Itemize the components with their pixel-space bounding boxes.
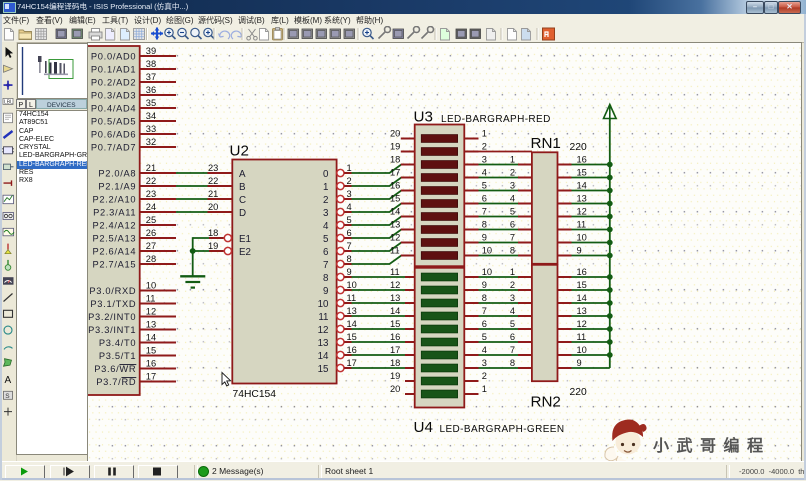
RN1 right pin 16 stub bbox=[558, 155, 587, 165]
svg-text:12: 12 bbox=[318, 325, 329, 336]
svg-text:220: 220 bbox=[570, 142, 587, 153]
wire RN2 pin 12 to VCC rail bbox=[572, 328, 610, 330]
RN2 right pin 15 stub bbox=[558, 280, 587, 290]
svg-text:P2.3/A11: P2.3/A11 bbox=[93, 208, 136, 218]
svg-text:13: 13 bbox=[577, 306, 587, 316]
svg-text:15: 15 bbox=[390, 194, 400, 204]
svg-text:1: 1 bbox=[510, 155, 515, 165]
RN2 right pin 11 stub bbox=[558, 332, 587, 342]
U4 right pin 2 stub bbox=[464, 371, 487, 381]
U1 pin 26 P2.5/A13 stub bbox=[92, 228, 176, 244]
junction node on VCC rail y=164 bbox=[607, 162, 613, 168]
RN1 right pin 12 stub bbox=[558, 207, 587, 217]
svg-text:8: 8 bbox=[510, 246, 515, 256]
U3 red LED bar segment 3 bbox=[421, 161, 457, 169]
RN2 right pin 16 stub bbox=[558, 267, 587, 277]
svg-text:36: 36 bbox=[146, 85, 156, 95]
LED bargraph U4 body bbox=[415, 268, 465, 408]
U3 left pin 15 stub bbox=[390, 194, 415, 204]
wire P2.3 to U2 input bbox=[176, 211, 208, 213]
wire U4 pin 9 to RN2 pin 2 bbox=[479, 289, 519, 291]
svg-text:11: 11 bbox=[146, 293, 156, 303]
RN1 right pin 10 stub bbox=[558, 233, 587, 243]
U4 green LED bar segment 7 bbox=[421, 351, 457, 359]
svg-text:5: 5 bbox=[347, 215, 352, 225]
svg-text:B: B bbox=[239, 182, 246, 193]
U4 green LED bar segment 4 bbox=[421, 312, 457, 320]
U1 pin 16 P3.6/WR stub bbox=[94, 358, 176, 374]
svg-text:1: 1 bbox=[482, 129, 487, 139]
U2 output 11 pin 13 stub with bubble bbox=[318, 306, 357, 323]
svg-text:15: 15 bbox=[146, 345, 156, 355]
RN1 left pin 7 stub bbox=[510, 233, 532, 243]
U3 red LED bar segment 1 bbox=[421, 135, 457, 143]
svg-text:4: 4 bbox=[510, 194, 515, 204]
RN2 right pin 12 stub bbox=[558, 319, 587, 329]
svg-text:15: 15 bbox=[577, 168, 587, 178]
wire U2 output 5 to U3 pin 13 bbox=[352, 230, 402, 239]
svg-text:8: 8 bbox=[482, 293, 487, 303]
RN2 right pin 13 stub bbox=[558, 306, 587, 316]
resistor network RN1 body bbox=[532, 152, 558, 263]
svg-text:E2: E2 bbox=[239, 247, 251, 258]
svg-text:6: 6 bbox=[323, 247, 329, 258]
U2 value label 74HC154 bbox=[233, 389, 277, 400]
svg-text:4: 4 bbox=[323, 221, 329, 232]
U1 pin 27 P2.6/A14 stub bbox=[92, 241, 176, 257]
svg-text:37: 37 bbox=[146, 72, 156, 82]
svg-text:14: 14 bbox=[390, 306, 400, 316]
wire U2 output 6 to U3 pin 12 bbox=[352, 243, 402, 252]
svg-text:C: C bbox=[239, 195, 246, 206]
svg-text:小武哥编程: 小武哥编程 bbox=[653, 436, 771, 455]
svg-text:3: 3 bbox=[482, 358, 487, 368]
wire RN2 pin 11 to VCC rail bbox=[572, 341, 610, 343]
U1 pin 35 P0.4/AD4 stub bbox=[91, 98, 176, 114]
U1 pin 22 P2.1/A9 stub bbox=[98, 176, 176, 192]
resistor network RN2 body bbox=[532, 265, 558, 381]
RN2 left pin 6 stub bbox=[510, 332, 532, 342]
U1 pin 28 P2.7/A15 stub bbox=[92, 254, 176, 270]
U1 pin 39 P0.0/AD0 stub bbox=[91, 46, 176, 62]
svg-text:33: 33 bbox=[146, 124, 156, 134]
svg-text:2: 2 bbox=[510, 168, 515, 178]
wire U4 pin 6 to RN2 pin 5 bbox=[479, 328, 519, 330]
svg-text:16: 16 bbox=[577, 267, 587, 277]
svg-text:LED-BARGRAPH-GREEN: LED-BARGRAPH-GREEN bbox=[440, 424, 565, 435]
U3 red LED bar segment 8 bbox=[421, 226, 457, 234]
U4 right pin 10 stub bbox=[464, 267, 492, 277]
RN2 right pin 9 stub bbox=[558, 358, 582, 368]
U1 pin 25 P2.4/A12 stub bbox=[92, 215, 176, 231]
svg-text:P3.7/RD: P3.7/RD bbox=[96, 377, 136, 387]
svg-text:28: 28 bbox=[146, 254, 156, 264]
svg-text:12: 12 bbox=[390, 280, 400, 290]
svg-text:16: 16 bbox=[390, 181, 400, 191]
P/L buttons + DEVICES header bbox=[16, 99, 87, 109]
U3 value label LED-BARGRAPH-RED bbox=[441, 114, 551, 125]
svg-text:13: 13 bbox=[390, 293, 400, 303]
svg-text:12: 12 bbox=[577, 207, 587, 217]
svg-text:18: 18 bbox=[390, 358, 400, 368]
wire U3 pin 8 to RN1 pin 6 bbox=[479, 229, 519, 231]
svg-text:15: 15 bbox=[347, 332, 357, 342]
RN1 left pin 1 stub bbox=[510, 155, 532, 165]
svg-text:P2.1/A9: P2.1/A9 bbox=[98, 182, 136, 192]
U2 output 15 pin 17 stub with bubble bbox=[318, 358, 357, 375]
svg-text:5: 5 bbox=[510, 207, 515, 217]
U3 right pin 2 stub bbox=[464, 142, 487, 152]
RN1 right pin 14 stub bbox=[558, 181, 587, 191]
U4 green LED bar segment 5 bbox=[421, 325, 457, 333]
U3 red LED bar segment 4 bbox=[421, 174, 457, 182]
U3 right pin 10 stub bbox=[464, 246, 492, 256]
wire RN2 pin 13 to VCC rail bbox=[572, 315, 610, 317]
wire U2 output 11 to U4 pin 14 bbox=[352, 315, 406, 317]
wire U3 pin 7 to RN1 pin 5 bbox=[479, 216, 519, 218]
watermark cartoon logo bbox=[605, 420, 647, 467]
svg-text:20: 20 bbox=[390, 384, 400, 394]
svg-text:A: A bbox=[5, 375, 12, 386]
U3 right pin 6 stub bbox=[464, 194, 487, 204]
LED bargraph U3 body bbox=[415, 125, 465, 267]
RN1 reference label bbox=[531, 135, 561, 152]
svg-text:P3.3/INT1: P3.3/INT1 bbox=[88, 325, 136, 335]
U2 enable input E2 pin 19 stub with bubble bbox=[208, 241, 251, 258]
U3 red LED bar segment 7 bbox=[421, 213, 457, 221]
svg-text:1: 1 bbox=[323, 182, 328, 193]
svg-text:2: 2 bbox=[482, 371, 487, 381]
svg-text:27: 27 bbox=[146, 241, 156, 251]
U2 enable input E1 pin 18 stub with bubble bbox=[208, 228, 251, 245]
U1 pin 37 P0.2/AD2 stub bbox=[91, 72, 176, 88]
RN1 left pin 8 stub bbox=[510, 246, 532, 256]
RN1 value label 220 bbox=[570, 142, 587, 153]
svg-text:39: 39 bbox=[146, 46, 156, 56]
U4 green LED bar segment 10 bbox=[421, 390, 457, 398]
svg-text:19: 19 bbox=[208, 241, 218, 251]
svg-text:14: 14 bbox=[146, 332, 156, 342]
U1 pin 13 P3.3/INT1 stub bbox=[88, 319, 176, 335]
junction node on VCC rail y=354 bbox=[607, 352, 613, 358]
wire U2 output 10 to U4 pin 13 bbox=[352, 302, 406, 304]
svg-text:U4: U4 bbox=[414, 419, 433, 436]
svg-text:17: 17 bbox=[390, 345, 400, 355]
U4 green LED bar segment 8 bbox=[421, 364, 457, 372]
junction node on VCC rail y=302 bbox=[607, 300, 613, 306]
U1 pin 15 P3.5/T1 stub bbox=[99, 345, 176, 361]
svg-text:9: 9 bbox=[482, 233, 487, 243]
svg-text:U3: U3 bbox=[414, 109, 433, 126]
svg-text:18: 18 bbox=[390, 155, 400, 165]
U1 pin 11 P3.1/TXD stub bbox=[90, 293, 176, 309]
RN1 right pin 15 stub bbox=[558, 168, 587, 178]
junction node on VCC rail y=289 bbox=[607, 287, 613, 293]
RN2 reference label bbox=[531, 394, 561, 411]
RN2 left pin 8 stub bbox=[510, 358, 532, 368]
RN1 right pin 9 stub bbox=[558, 246, 582, 256]
U2 input B pin 22 stub bbox=[208, 176, 247, 193]
svg-text:DEVICES: DEVICES bbox=[47, 102, 76, 109]
U3 right pin 8 stub bbox=[464, 220, 487, 230]
svg-text:21: 21 bbox=[146, 163, 156, 173]
svg-text:19: 19 bbox=[390, 142, 400, 152]
svg-text:14: 14 bbox=[577, 181, 587, 191]
wire U4 pin 8 to RN2 pin 3 bbox=[479, 302, 519, 304]
svg-text:P2.5/A13: P2.5/A13 bbox=[92, 234, 136, 244]
U2 input D pin 20 stub bbox=[208, 202, 247, 219]
U4 green LED bar segment 1 bbox=[421, 273, 457, 281]
U3 left pin 13 stub bbox=[390, 220, 415, 230]
svg-text:34: 34 bbox=[146, 111, 156, 121]
svg-text:10: 10 bbox=[482, 246, 492, 256]
wire U2 output 9 to U4 pin 12 bbox=[352, 289, 406, 291]
U2 output 8 pin 9 stub with bubble bbox=[323, 267, 352, 284]
svg-text:2: 2 bbox=[482, 142, 487, 152]
U2 output 6 pin 7 stub with bubble bbox=[323, 241, 352, 258]
U3 left pin 12 stub bbox=[390, 233, 415, 243]
U3 left pin 17 stub bbox=[390, 168, 415, 178]
U3 right pin 9 stub bbox=[464, 233, 487, 243]
U4 right pin 3 stub bbox=[464, 358, 487, 368]
svg-text:13: 13 bbox=[390, 220, 400, 230]
RN1 left pin 3 stub bbox=[510, 181, 532, 191]
U4 right pin 9 stub bbox=[464, 280, 487, 290]
svg-text:1: 1 bbox=[510, 267, 515, 277]
junction node on VCC rail y=202 bbox=[607, 201, 613, 207]
U4 green LED bar segment 2 bbox=[421, 286, 457, 294]
RN1 left pin 5 stub bbox=[510, 207, 532, 217]
title bar bbox=[0, 0, 806, 14]
svg-text:10: 10 bbox=[577, 233, 587, 243]
svg-text:20: 20 bbox=[390, 129, 400, 139]
U1 pin 38 P0.1/AD1 stub bbox=[91, 59, 176, 75]
svg-text:25: 25 bbox=[146, 215, 156, 225]
svg-text:10: 10 bbox=[577, 345, 587, 355]
RN2 left pin 2 stub bbox=[510, 280, 532, 290]
wire RN1 pin 16 to VCC rail bbox=[572, 164, 610, 166]
wire U4 pin 7 to RN2 pin 4 bbox=[479, 315, 519, 317]
U4 left pin 18 stub bbox=[390, 358, 415, 368]
junction node on VCC rail y=254 bbox=[607, 253, 613, 259]
wire RN2 pin 15 to VCC rail bbox=[572, 289, 610, 291]
svg-text:4: 4 bbox=[482, 345, 487, 355]
U4 right pin 8 stub bbox=[464, 293, 487, 303]
svg-text:2: 2 bbox=[510, 280, 515, 290]
microcontroller U1 AT89C51 body (clipped at left) bbox=[71, 46, 140, 395]
svg-text:20: 20 bbox=[208, 202, 218, 212]
junction node on VCC rail y=328 bbox=[607, 326, 613, 332]
U1 pin 21 P2.0/A8 stub bbox=[98, 163, 176, 179]
svg-text:10: 10 bbox=[318, 299, 329, 310]
svg-text:0: 0 bbox=[323, 169, 329, 180]
svg-text:12: 12 bbox=[577, 319, 587, 329]
svg-text:P2.4/A12: P2.4/A12 bbox=[92, 221, 136, 231]
wire RN1 pin 13 to VCC rail bbox=[572, 203, 610, 205]
svg-text:6: 6 bbox=[347, 228, 352, 238]
overview preview bbox=[17, 43, 88, 99]
svg-text:5: 5 bbox=[510, 319, 515, 329]
U2 output 10 pin 11 stub with bubble bbox=[318, 293, 357, 310]
watermark text bbox=[653, 436, 771, 455]
U2 output 14 pin 16 stub with bubble bbox=[318, 345, 357, 362]
svg-text:P2.7/A15: P2.7/A15 bbox=[92, 260, 136, 270]
svg-text:11: 11 bbox=[347, 293, 357, 303]
wire U2 output 15 to U4 pin 18 bbox=[352, 367, 406, 369]
U2 output 3 pin 4 stub with bubble bbox=[323, 202, 352, 219]
U2 output 2 pin 3 stub with bubble bbox=[323, 189, 352, 206]
wire U2 output 12 to U4 pin 15 bbox=[352, 328, 406, 330]
wire RN2 pin 16 to VCC rail bbox=[572, 276, 610, 278]
svg-text:16: 16 bbox=[577, 155, 587, 165]
U4 right pin 6 stub bbox=[464, 319, 487, 329]
U3 right pin 4 stub bbox=[464, 168, 487, 178]
svg-text:LBL: LBL bbox=[4, 100, 13, 106]
svg-text:22: 22 bbox=[208, 176, 218, 186]
status bar bbox=[0, 461, 806, 481]
RN1 right pin 13 stub bbox=[558, 194, 587, 204]
svg-text:14: 14 bbox=[318, 351, 329, 362]
svg-text:8: 8 bbox=[510, 358, 515, 368]
U4 left pin 20 stub bbox=[390, 384, 415, 394]
svg-text:23: 23 bbox=[208, 163, 218, 173]
U3 right pin 7 stub bbox=[464, 207, 487, 217]
U4 green LED bar segment 6 bbox=[421, 338, 457, 346]
wire U2 output 7 to U3 pin 11 bbox=[352, 256, 402, 265]
U2 output 13 pin 15 stub with bubble bbox=[318, 332, 357, 349]
U4 left pin 13 stub bbox=[390, 293, 415, 303]
svg-text:5: 5 bbox=[482, 181, 487, 191]
U4 right pin 1 stub bbox=[464, 384, 487, 394]
svg-text:21: 21 bbox=[208, 189, 218, 199]
ground symbol bbox=[180, 276, 205, 287]
RN1 left pin 6 stub bbox=[510, 220, 532, 230]
svg-text:P0.4/AD4: P0.4/AD4 bbox=[91, 104, 136, 114]
U3 red LED bar segment 6 bbox=[421, 200, 457, 208]
svg-text:3: 3 bbox=[323, 208, 329, 219]
RN2 left pin 3 stub bbox=[510, 293, 532, 303]
svg-text:4: 4 bbox=[482, 168, 487, 178]
VCC power terminal arrow bbox=[604, 105, 617, 122]
U2 output 4 pin 5 stub with bubble bbox=[323, 215, 352, 232]
U3 right pin 3 stub bbox=[464, 155, 487, 165]
svg-text:4: 4 bbox=[347, 202, 352, 212]
wire U3 pin 3 to RN1 pin 1 bbox=[479, 164, 519, 166]
svg-text:P0.5/AD5: P0.5/AD5 bbox=[91, 117, 136, 127]
svg-text:9: 9 bbox=[482, 280, 487, 290]
svg-text:8: 8 bbox=[323, 273, 329, 284]
svg-text:4: 4 bbox=[510, 306, 515, 316]
svg-text:P3.0/RXD: P3.0/RXD bbox=[89, 286, 136, 296]
wire U2 output 2 to U3 pin 16 bbox=[352, 191, 402, 200]
U4 left pin 16 stub bbox=[390, 332, 415, 342]
wire E1/E2 to ground bbox=[193, 237, 209, 275]
svg-text:15: 15 bbox=[318, 364, 329, 375]
RN2 value label 220 bbox=[570, 387, 587, 398]
svg-text:6: 6 bbox=[510, 220, 515, 230]
U1 pin 33 P0.6/AD6 stub bbox=[91, 124, 176, 140]
wire P2.1 to U2 input bbox=[176, 185, 208, 187]
svg-text:8: 8 bbox=[482, 220, 487, 230]
svg-text:P3.4/T0: P3.4/T0 bbox=[99, 338, 136, 348]
U3 left pin 18 stub bbox=[390, 155, 415, 165]
svg-text:16: 16 bbox=[146, 358, 156, 368]
junction node on VCC rail y=341 bbox=[607, 339, 613, 345]
svg-text:13: 13 bbox=[318, 338, 329, 349]
svg-text:U2: U2 bbox=[230, 143, 249, 160]
RN2 right pin 10 stub bbox=[558, 345, 587, 355]
svg-text:12: 12 bbox=[146, 306, 156, 316]
U3 pin 2 long stub to RN1 top corner bbox=[464, 151, 532, 153]
U3 red LED bar segment 2 bbox=[421, 148, 457, 156]
svg-text:38: 38 bbox=[146, 59, 156, 69]
U4 reference label bbox=[414, 419, 433, 436]
svg-text:14: 14 bbox=[347, 319, 357, 329]
junction node on VCC rail y=176 bbox=[607, 175, 613, 181]
U1 pin 24 P2.3/A11 stub bbox=[93, 202, 176, 218]
wire U2 output 14 to U4 pin 17 bbox=[352, 354, 406, 356]
wire U3 pin 6 to RN1 pin 4 bbox=[479, 203, 519, 205]
svg-text:7: 7 bbox=[510, 233, 515, 243]
wire U2 output 0 to U3 pin 18 bbox=[352, 165, 402, 174]
wire P2.2 to U2 input bbox=[176, 198, 208, 200]
junction node on VCC rail y=276 bbox=[607, 274, 613, 280]
svg-text:RN1: RN1 bbox=[531, 135, 561, 152]
svg-text:23: 23 bbox=[146, 189, 156, 199]
wire RN2 pin 10 to VCC rail bbox=[572, 354, 610, 356]
RN1 right pin 11 stub bbox=[558, 220, 587, 230]
junction node on VCC rail y=315 bbox=[607, 313, 613, 319]
svg-text:P2.6/A14: P2.6/A14 bbox=[92, 247, 136, 257]
wire RN2 pin 14 to VCC rail bbox=[572, 302, 610, 304]
svg-text:P3.5/T1: P3.5/T1 bbox=[99, 351, 136, 361]
svg-text:22: 22 bbox=[146, 176, 156, 186]
svg-text:6: 6 bbox=[482, 319, 487, 329]
junction node on VCC rail y=190 bbox=[607, 188, 613, 194]
U3 left pin 14 stub bbox=[390, 207, 415, 217]
svg-text:P2.0/A8: P2.0/A8 bbox=[98, 169, 136, 179]
svg-text:LED-BARGRAPH-RED: LED-BARGRAPH-RED bbox=[441, 114, 551, 125]
U4 green LED bar segment 9 bbox=[421, 377, 457, 385]
svg-text:15: 15 bbox=[577, 280, 587, 290]
U3 left pin 11 stub bbox=[390, 246, 415, 256]
svg-text:11: 11 bbox=[390, 267, 400, 277]
decoder U2 74HC154 body bbox=[232, 160, 336, 384]
svg-text:P0.2/AD2: P0.2/AD2 bbox=[91, 78, 136, 88]
U1 pin 34 P0.5/AD5 stub bbox=[91, 111, 176, 127]
svg-text:7: 7 bbox=[510, 345, 515, 355]
svg-text:10: 10 bbox=[146, 280, 156, 290]
U1 pin 36 P0.3/AD3 stub bbox=[91, 85, 176, 101]
svg-text:18: 18 bbox=[208, 228, 218, 238]
svg-text:17: 17 bbox=[347, 358, 357, 368]
wire U4 pin 4 to RN2 pin 7 bbox=[479, 354, 519, 356]
svg-text:3: 3 bbox=[510, 181, 515, 191]
svg-text:11: 11 bbox=[390, 246, 400, 256]
svg-text:S: S bbox=[5, 393, 10, 400]
svg-text:P0.0/AD0: P0.0/AD0 bbox=[91, 52, 136, 62]
wire U2 output 8 to U4 pin 11 bbox=[352, 276, 406, 278]
U1 pin 32 P0.7/AD7 stub bbox=[91, 137, 176, 153]
junction node at E2 wire bbox=[190, 248, 196, 254]
svg-text:2: 2 bbox=[323, 195, 328, 206]
RN2 left pin 4 stub bbox=[510, 306, 532, 316]
U2 input A pin 23 stub bbox=[208, 163, 247, 180]
U3 reference label bbox=[414, 109, 433, 126]
svg-text:RN2: RN2 bbox=[531, 394, 561, 411]
svg-text:13: 13 bbox=[347, 306, 357, 316]
U4 value label LED-BARGRAPH-GREEN bbox=[440, 424, 565, 435]
